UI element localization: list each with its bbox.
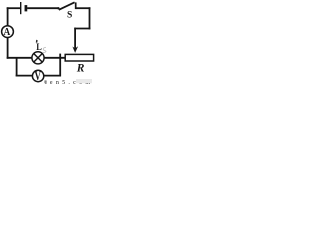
svg-text:R: R	[76, 63, 85, 75]
switch left contact nub	[57, 7, 59, 9]
switch blade	[59, 2, 75, 10]
wire battery to switch	[27, 7, 58, 9]
wire voltmeter row left	[16, 75, 33, 77]
wire lamp to rheostat	[44, 57, 65, 59]
svg-text:L: L	[36, 41, 42, 52]
ink speck above lamp label	[36, 40, 38, 43]
svg-text:S: S	[67, 10, 72, 20]
svg-text:V: V	[34, 70, 41, 84]
wire voltmeter branch left vertical	[16, 57, 18, 76]
voltmeter V circle	[32, 70, 43, 81]
battery short plate	[25, 5, 28, 11]
faint curl artifact right of L	[43, 47, 46, 52]
wire lamp row left	[7, 57, 32, 59]
lamp X diagonal 2	[34, 54, 42, 62]
wire switch to top-right corner	[76, 7, 90, 9]
wire top-left horizontal from corner to battery	[7, 7, 20, 9]
wire voltmeter row right	[44, 75, 61, 77]
wire slider stem vertical	[74, 28, 76, 49]
svg-text:A: A	[4, 26, 11, 38]
wire left side vertical (through ammeter)	[7, 7, 9, 58]
rheostat R body	[65, 54, 93, 61]
lamp X diagonal 1	[34, 54, 42, 62]
wire voltmeter branch right vertical	[59, 54, 61, 77]
lamp L circle	[32, 52, 44, 64]
wire horizontal jog to slider	[74, 28, 90, 30]
wire right side vertical	[89, 7, 91, 29]
battery long plate	[20, 2, 22, 14]
ammeter A1 circle	[2, 26, 14, 38]
rheostat slider arrowhead	[72, 46, 78, 53]
watermark dark blob	[44, 80, 47, 83]
watermark faint blob right	[76, 79, 92, 83]
switch right contact tick	[75, 2, 77, 9]
